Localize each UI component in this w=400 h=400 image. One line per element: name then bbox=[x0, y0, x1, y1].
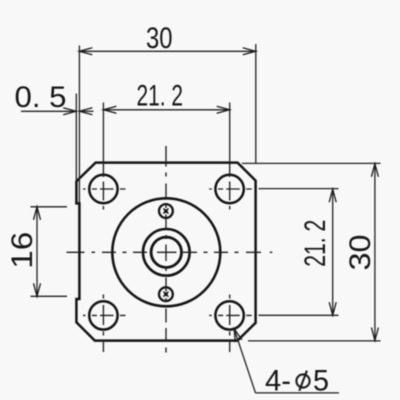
svg-text:30: 30 bbox=[146, 22, 173, 55]
svg-text:4-: 4- bbox=[265, 365, 291, 398]
svg-text:21. 2: 21. 2 bbox=[137, 80, 184, 113]
svg-text:21. 2: 21. 2 bbox=[299, 220, 332, 267]
svg-text:30: 30 bbox=[344, 235, 377, 271]
svg-text:0. 5: 0. 5 bbox=[15, 81, 67, 114]
svg-text:5: 5 bbox=[313, 365, 329, 398]
svg-text:16: 16 bbox=[6, 232, 39, 269]
